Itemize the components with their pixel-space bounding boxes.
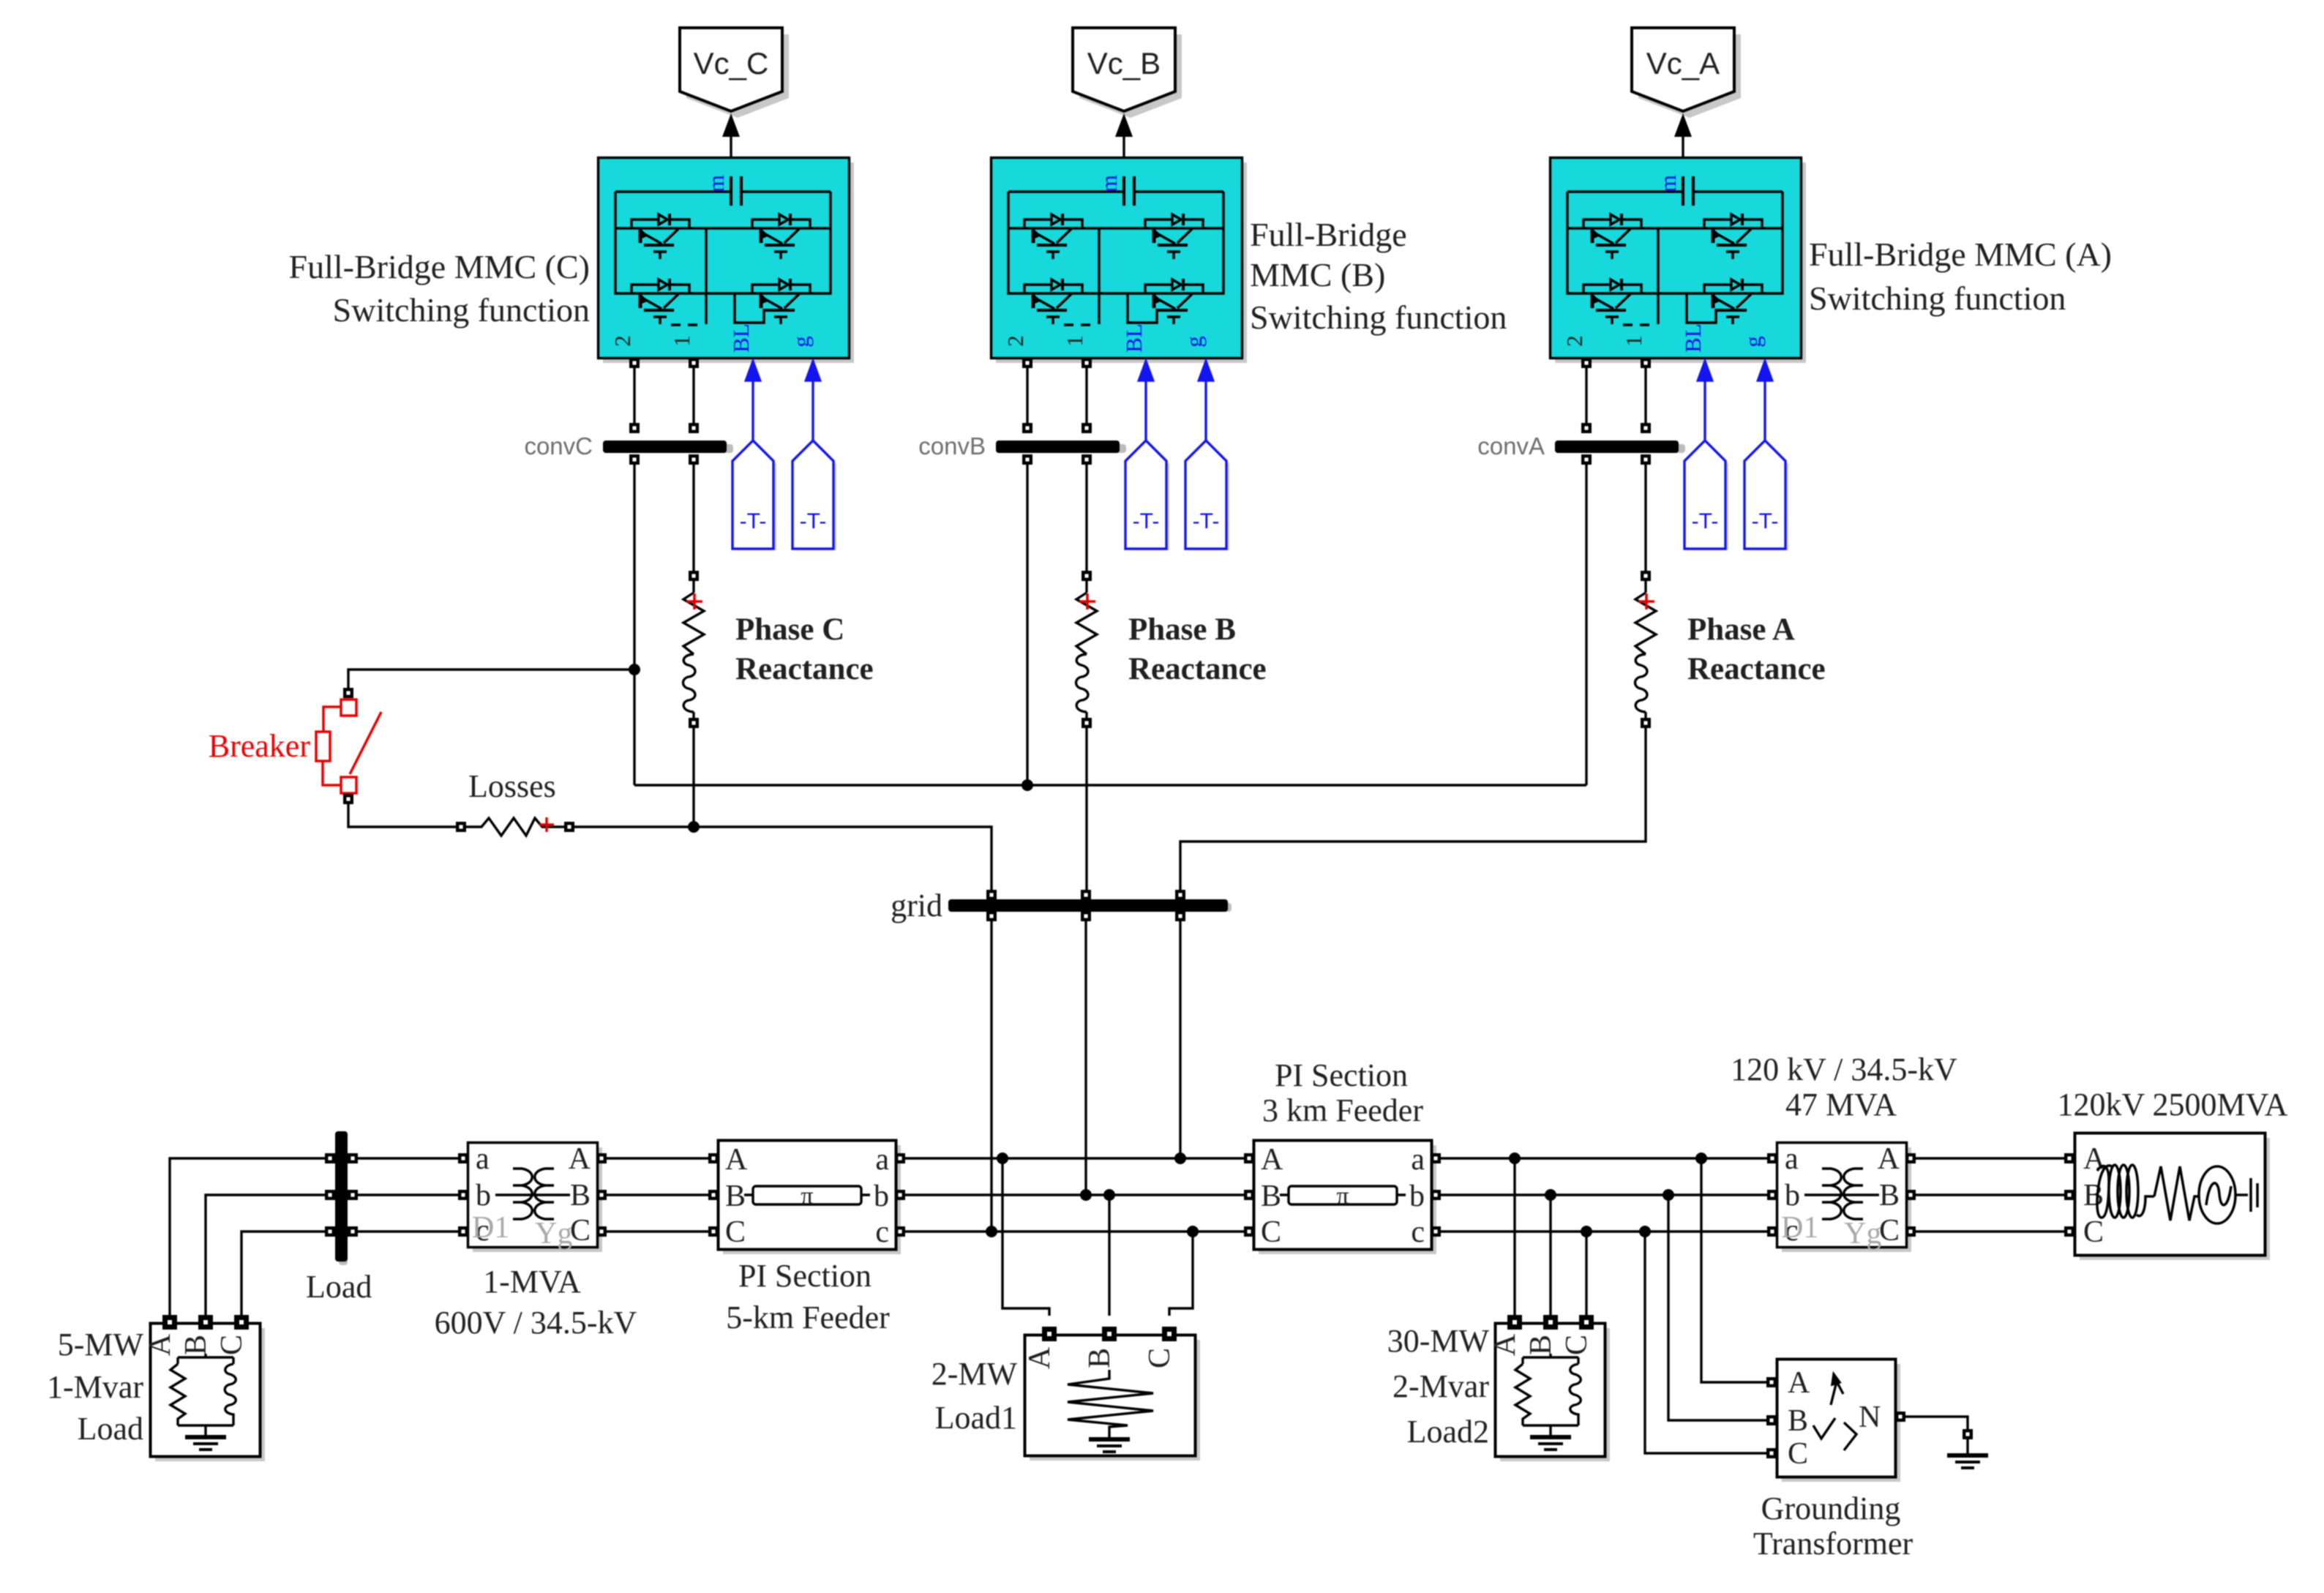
Full-Bridge MMC (B) block with Vc_B goto tag, convB bus, From tags, Phase B reactance bbox=[992, 28, 1248, 728]
wire: feeder row B between PI sections bbox=[905, 1193, 1249, 1196]
block PI Section 5-km Feeder bbox=[708, 1141, 905, 1255]
wire: feeder row A between PI sections bbox=[905, 1157, 1249, 1159]
node: junction breaker branch on C port2 wire bbox=[629, 664, 640, 675]
wire: grounding transformer phase A drop bbox=[1701, 1158, 1768, 1382]
wire: MMC B port2 drop bbox=[1026, 465, 1028, 785]
svg-text:5-MW: 5-MW bbox=[58, 1327, 144, 1363]
svg-text:PI Section: PI Section bbox=[738, 1258, 871, 1294]
wire: Losses to grid drop bbox=[574, 827, 992, 895]
svg-text:A: A bbox=[1023, 1346, 1057, 1369]
svg-text:Full-Bridge MMC (C): Full-Bridge MMC (C) bbox=[289, 248, 590, 285]
Full-Bridge MMC (C) block with Vc_C goto tag, convC bus, From tags, Phase C reactance bbox=[599, 28, 855, 728]
svg-text:C: C bbox=[1143, 1348, 1177, 1368]
svg-text:Load: Load bbox=[78, 1411, 143, 1447]
wire: grid phase B drop to feeder row B bbox=[1084, 921, 1087, 1195]
wire: Load1 phase A tap bbox=[1002, 1158, 1049, 1316]
wire: reactance B bottom to grid bbox=[1085, 728, 1087, 895]
wire: Load bus to 1-MVA transformer (3 phases) bbox=[358, 1158, 458, 1232]
wire: Load2 phase C tap bbox=[1585, 1232, 1587, 1316]
breaker Breaker (red ideal switch) bbox=[316, 688, 381, 804]
svg-text:B: B bbox=[2083, 1179, 2104, 1212]
svg-text:Transformer: Transformer bbox=[1753, 1526, 1913, 1562]
svg-text:B: B bbox=[1788, 1404, 1808, 1438]
svg-text:Vc_A: Vc_A bbox=[1646, 46, 1720, 80]
wire: grid phase C drop to feeder row C bbox=[990, 921, 992, 1232]
wire: 5-MW load phase C to Load bus bbox=[241, 1232, 330, 1316]
wire: 5-MW load phase B to Load bus bbox=[206, 1195, 330, 1316]
svg-text:47 MVA: 47 MVA bbox=[1785, 1087, 1897, 1122]
svg-text:1-MVA: 1-MVA bbox=[483, 1264, 581, 1300]
svg-text:PI Section: PI Section bbox=[1275, 1057, 1408, 1093]
wire: grounding transformer phase B drop bbox=[1668, 1195, 1768, 1420]
load 30-MW 2-Mvar Load2 bbox=[1488, 1315, 1610, 1461]
svg-text:B: B bbox=[1083, 1348, 1117, 1368]
wire: MMC A port2 drop bbox=[1585, 465, 1587, 785]
svg-text:C: C bbox=[2083, 1215, 2104, 1249]
svg-text:Phase C: Phase C bbox=[735, 612, 844, 647]
svg-text:2-Mvar: 2-Mvar bbox=[1392, 1368, 1489, 1404]
svg-text:Reactance: Reactance bbox=[735, 652, 874, 686]
wire: grounding transformer phase C drop bbox=[1645, 1232, 1768, 1453]
wire: Load2 phase A tap bbox=[1513, 1158, 1515, 1316]
wire: row b from PI 3km to 120kV transformer bbox=[1441, 1193, 1768, 1196]
wire: grid phase A drop to feeder row A bbox=[1179, 921, 1181, 1158]
svg-text:Vc_C: Vc_C bbox=[694, 46, 769, 80]
svg-text:1-Mvar: 1-Mvar bbox=[47, 1369, 143, 1405]
wire: 120kV transformer to source (3 phases) bbox=[1916, 1158, 2064, 1232]
svg-text:30-MW: 30-MW bbox=[1387, 1323, 1490, 1359]
wire: Load2 phase B tap bbox=[1549, 1195, 1551, 1316]
svg-text:Grounding: Grounding bbox=[1761, 1491, 1901, 1526]
node: junction reactance C bottom on losses wire bbox=[688, 821, 700, 833]
svg-text:N: N bbox=[1859, 1401, 1881, 1434]
block PI Section 3 km Feeder bbox=[1244, 1141, 1441, 1255]
svg-text:grid: grid bbox=[891, 888, 942, 923]
svg-text:Full-Bridge: Full-Bridge bbox=[1250, 216, 1407, 253]
svg-text:Load1: Load1 bbox=[935, 1400, 1017, 1436]
wire: row c from PI 3km to 120kV transformer bbox=[1441, 1230, 1768, 1232]
bus grid bbox=[948, 890, 1232, 921]
wire: row a from PI 3km to 120kV transformer bbox=[1441, 1157, 1768, 1159]
svg-text:Switching function: Switching function bbox=[1250, 299, 1507, 336]
wire: reactance C bottom to junction bbox=[692, 728, 694, 827]
wire: breaker to Losses resistor bbox=[348, 804, 456, 827]
svg-text:Vc_B: Vc_B bbox=[1087, 46, 1161, 80]
wire: feeder row C between PI sections bbox=[905, 1230, 1249, 1232]
wire: Load1 phase B tap bbox=[1108, 1195, 1110, 1316]
svg-text:Phase A: Phase A bbox=[1687, 612, 1795, 647]
svg-text:Switching function: Switching function bbox=[1809, 280, 2066, 317]
svg-text:Reactance: Reactance bbox=[1128, 652, 1267, 686]
load 2-MW Load1 (grounded resistor) bbox=[1023, 1327, 1200, 1461]
svg-text:convB: convB bbox=[918, 432, 986, 460]
resistor Losses bbox=[456, 817, 574, 836]
svg-text:Switching function: Switching function bbox=[333, 291, 590, 329]
Full-Bridge MMC (A) block with Vc_A goto tag, convA bus, From tags, Phase A reactance bbox=[1551, 28, 1807, 728]
svg-text:120 kV / 34.5-kV: 120 kV / 34.5-kV bbox=[1731, 1052, 1957, 1087]
source 120kV 2500MVA (three-phase source block) bbox=[2064, 1133, 2270, 1261]
svg-text:Losses: Losses bbox=[468, 768, 556, 804]
svg-text:3 km Feeder: 3 km Feeder bbox=[1262, 1092, 1423, 1128]
ground (earth symbol at grounding transformer neutral) bbox=[1966, 1439, 1968, 1453]
svg-text:C: C bbox=[1788, 1437, 1808, 1471]
svg-text:5-km Feeder: 5-km Feeder bbox=[726, 1300, 890, 1335]
svg-text:Full-Bridge MMC (A): Full-Bridge MMC (A) bbox=[1809, 236, 2112, 273]
svg-text:600V / 34.5-kV: 600V / 34.5-kV bbox=[435, 1305, 637, 1341]
wire: reactance A bottom to grid bbox=[1180, 728, 1646, 895]
svg-text:2-MW: 2-MW bbox=[932, 1356, 1018, 1392]
node: junction of B port2 with rail bbox=[1022, 779, 1033, 791]
bus Load (vertical bus bar) bbox=[325, 1131, 358, 1265]
wire: 1-MVA to PI Section 5-km (3 phases) bbox=[607, 1158, 708, 1232]
transformer Grounding Transformer (zigzag) bbox=[1766, 1360, 1905, 1483]
wire: N to ground bbox=[1905, 1417, 1968, 1429]
svg-text:convC: convC bbox=[524, 432, 593, 460]
transformer 1-MVA 600V/34.5-kV bbox=[458, 1142, 607, 1252]
wire: Load1 phase C tap bbox=[1169, 1232, 1193, 1316]
wire: branch to breaker bbox=[348, 670, 634, 688]
svg-text:Phase B: Phase B bbox=[1128, 612, 1236, 647]
wire: 5-MW load phase A to Load bus bbox=[170, 1158, 330, 1316]
svg-text:Load: Load bbox=[306, 1269, 372, 1305]
svg-text:Reactance: Reactance bbox=[1687, 652, 1826, 686]
svg-text:A: A bbox=[1788, 1366, 1810, 1400]
transformer 120 kV / 34.5-kV 47 MVA bbox=[1767, 1142, 1916, 1252]
svg-text:120kV 2500MVA: 120kV 2500MVA bbox=[2058, 1087, 2288, 1122]
wire: terminal-2 rail y=1073 joining ports 2 of C,B,A bbox=[634, 784, 1586, 786]
svg-text:Load2: Load2 bbox=[1407, 1414, 1489, 1450]
svg-text:convA: convA bbox=[1477, 432, 1545, 460]
svg-text:MMC (B): MMC (B) bbox=[1250, 256, 1385, 293]
wire: MMC C port2 down to terminal-2 rail bbox=[633, 465, 635, 785]
svg-text:Breaker: Breaker bbox=[209, 728, 311, 764]
load 5-MW 1-Mvar Load (parallel RL with ground) bbox=[143, 1315, 265, 1461]
